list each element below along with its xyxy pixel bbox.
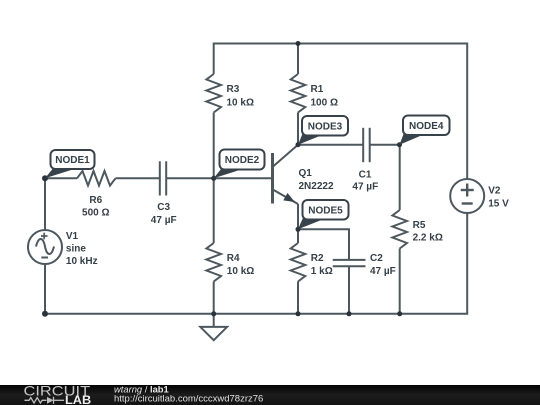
label C3 value: [151, 202, 177, 226]
wire NODE4 to R5: [399, 145, 401, 210]
svg-text:http://circuitlab.com/cccxwd78: http://circuitlab.com/cccxwd78zrz76: [114, 394, 263, 404]
svg-text:C3: C3: [157, 202, 170, 213]
V2 plus sign: [461, 184, 474, 197]
junction R2 bottom dot: [296, 311, 301, 316]
resistor R4: [206, 243, 221, 282]
junction node NODE1 dot: [42, 175, 48, 181]
wire C1 to NODE4: [370, 144, 400, 146]
node label NODE3: [298, 116, 348, 145]
wire R3 to NODE2: [213, 113, 215, 179]
svg-text:1 kΩ: 1 kΩ: [311, 266, 333, 277]
junction R5 bottom dot: [397, 311, 402, 316]
wire V1 bottom lead: [44, 264, 46, 314]
junction node NODE4 dot: [397, 142, 402, 147]
resistor R2: [291, 243, 306, 282]
resistor R1: [291, 74, 306, 113]
junction ground dot: [211, 311, 216, 316]
junction node NODE5 dot: [296, 227, 301, 232]
V2 minus sign: [462, 202, 473, 204]
junction bottom left dot: [42, 311, 48, 317]
wire NODE2 to R4: [213, 178, 215, 243]
ground: [200, 327, 227, 340]
svg-text:NODE1: NODE1: [55, 155, 90, 166]
label R4 value: [227, 253, 254, 277]
label R1 value: [311, 84, 338, 109]
svg-text:NODE3: NODE3: [308, 122, 343, 133]
capacitor C3: [160, 161, 166, 195]
wire R4 to ground rail: [213, 282, 215, 314]
svg-text:C2: C2: [370, 253, 383, 264]
wire R5 to ground rail: [399, 249, 401, 314]
svg-text:V2: V2: [488, 185, 501, 196]
label R2 value: [311, 253, 333, 277]
label V2 value: [488, 185, 509, 209]
wire ground stub: [213, 314, 215, 327]
label R5 value: [413, 220, 443, 244]
node label NODE4: [400, 116, 450, 145]
label C1 value: [352, 170, 378, 193]
svg-text:R1: R1: [311, 84, 324, 95]
svg-text:Q1: Q1: [299, 168, 313, 179]
svg-text:47 µF: 47 µF: [370, 266, 396, 277]
svg-text:R6: R6: [89, 195, 102, 206]
label V1 value: [66, 231, 98, 267]
footer bar: [0, 385, 540, 405]
junction top rail dot: [296, 41, 301, 46]
voltage source V1 circle: [28, 230, 62, 264]
V1 minus sign: [41, 257, 48, 259]
svg-text:10 kΩ: 10 kΩ: [227, 98, 254, 109]
V1 sine symbol: [36, 239, 54, 254]
transistor Q1 base bar: [271, 153, 274, 204]
capacitor C2: [333, 260, 366, 266]
label Q1 value: [299, 168, 334, 192]
wire C2 to ground rail: [348, 266, 350, 313]
resistor R5: [392, 210, 407, 249]
wire R6 to C3: [116, 177, 160, 179]
transistor Q1 emitter arrow: [283, 193, 295, 202]
svg-text:10 kHz: 10 kHz: [66, 256, 98, 267]
wire NODE1 to R6: [45, 177, 77, 179]
voltage source V2 circle: [450, 179, 484, 213]
wire R1 to NODE3: [297, 113, 299, 145]
wire C3 to NODE2: [166, 177, 214, 179]
wire NODE5 to C2: [298, 229, 349, 260]
V1 plus sign: [41, 233, 48, 240]
svg-text:R4: R4: [227, 253, 240, 264]
svg-text:C1: C1: [359, 170, 372, 181]
wire R2 to ground rail: [297, 282, 299, 314]
wire R1 top lead: [297, 44, 299, 75]
svg-text:100 Ω: 100 Ω: [311, 98, 338, 109]
transistor Q1 emitter: [273, 190, 298, 204]
junction C2 bottom dot: [347, 311, 352, 316]
svg-text:V1: V1: [66, 231, 79, 242]
svg-text:15 V: 15 V: [488, 198, 509, 209]
node label NODE5: [298, 200, 349, 229]
wire NODE3 to C1: [298, 144, 363, 146]
label C2 value: [370, 253, 396, 277]
svg-text:sine: sine: [66, 243, 86, 254]
wire NODE2 to Q1 base: [214, 177, 272, 179]
svg-text:2N2222: 2N2222: [299, 181, 334, 192]
svg-text:R3: R3: [227, 84, 240, 95]
junction node NODE3 dot: [296, 142, 301, 147]
wire Q1 emitter to NODE5: [297, 204, 299, 229]
svg-text:10 kΩ: 10 kΩ: [227, 266, 254, 277]
label R6 value: [82, 195, 109, 219]
svg-text:47 µF: 47 µF: [352, 182, 378, 193]
footer logo resistor-diode symbol: [25, 397, 65, 404]
wire top rail: [214, 44, 468, 180]
resistor R3: [206, 74, 221, 113]
svg-text:R2: R2: [311, 253, 324, 264]
junction node NODE2 dot: [211, 176, 216, 181]
label R3 value: [227, 84, 254, 109]
svg-text:NODE5: NODE5: [308, 206, 343, 217]
svg-text:500 Ω: 500 Ω: [82, 207, 109, 218]
node label NODE2: [214, 150, 265, 179]
capacitor C1: [363, 128, 370, 162]
wire V1 top lead: [44, 178, 46, 230]
resistor R6: [77, 171, 116, 186]
transistor Q1 collector: [273, 145, 298, 167]
wire bottom rail: [45, 213, 467, 314]
svg-text:LAB: LAB: [65, 395, 91, 405]
svg-text:NODE4: NODE4: [409, 121, 444, 132]
svg-text:R5: R5: [413, 220, 426, 231]
svg-text:2.2 kΩ: 2.2 kΩ: [413, 233, 443, 244]
wire NODE5 to R2: [297, 229, 299, 243]
svg-text:47 µF: 47 µF: [151, 215, 177, 226]
svg-text:NODE2: NODE2: [225, 155, 260, 166]
node label NODE1: [45, 150, 95, 178]
